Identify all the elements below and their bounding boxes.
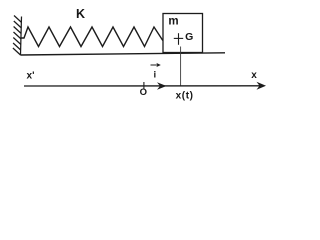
origin O tick [143,82,145,90]
svg-text:K: K [76,7,85,21]
wall (fixed support) [13,16,22,56]
svg-text:O: O [140,87,147,98]
svg-text:x: x [251,70,257,81]
x(t) vertical reference line [180,47,182,87]
x axis line [24,85,263,87]
ground line [21,53,226,55]
spring K [22,27,163,47]
svg-text:i: i [153,70,156,81]
svg-text:x(t): x(t) [176,90,194,101]
mass block m [163,14,203,53]
centre of gravity G cross [174,33,183,45]
svg-text:m: m [168,16,178,28]
svg-text:x': x' [27,71,35,82]
wall hatching [14,16,22,23]
x axis arrowhead [257,82,267,90]
label i with vector arrow [151,63,161,81]
svg-text:G: G [185,31,193,43]
unit vector i arrowhead on axis [157,82,167,90]
